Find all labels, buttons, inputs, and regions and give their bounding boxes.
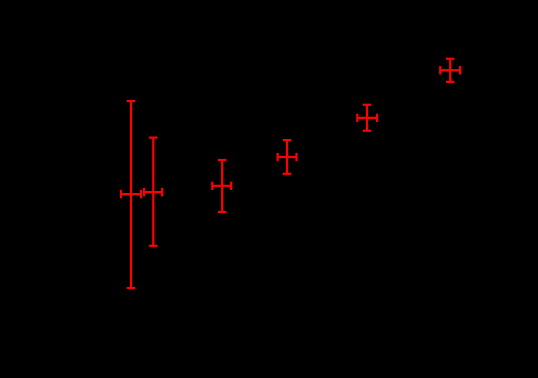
data point 1 (xyerrorbar) xyxy=(121,101,141,288)
data point 4 (xyerrorbar) xyxy=(278,140,297,174)
data point 3 (xyerrorbar) xyxy=(212,160,231,212)
data point 5 (xyerrorbar) xyxy=(357,105,377,131)
data point 6 (xyerrorbar) xyxy=(440,59,460,82)
data point 2 (xyerrorbar) xyxy=(144,138,162,246)
